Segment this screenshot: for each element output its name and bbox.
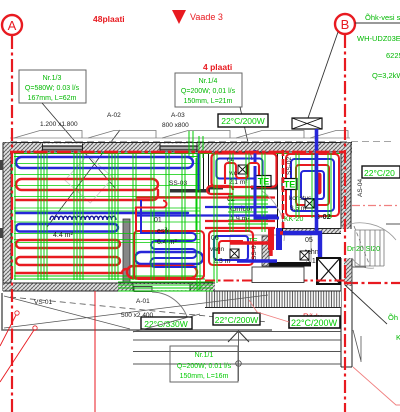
svg-text:2.3 m: 2.3 m xyxy=(213,258,231,265)
svg-text:800 x800: 800 x800 xyxy=(162,122,189,129)
heating spiral wc blue middle xyxy=(217,159,263,179)
line from circle B to right xyxy=(355,22,400,24)
door swing arc large xyxy=(341,223,396,240)
bottom exterior wall (hatched) xyxy=(3,283,215,291)
svg-text:A: A xyxy=(8,18,17,33)
heating pipe red run low xyxy=(16,269,126,273)
convector coil symbol xyxy=(50,216,116,220)
red dash-dot service line above balcony xyxy=(205,280,345,282)
svg-text:Q=3,2kW: Q=3,2kW xyxy=(372,71,400,80)
manifold blue bar xyxy=(276,228,282,250)
vent symbol tech room right xyxy=(300,251,309,260)
wall below room 03 xyxy=(283,229,341,234)
door A-01 leaf xyxy=(134,287,152,292)
exterior stair treads xyxy=(355,230,384,266)
door A-01 swing arc xyxy=(152,292,189,325)
leader from box Nr.1/3 xyxy=(42,103,115,188)
thermostat TE wc xyxy=(256,176,271,187)
heating loop red bottom right xyxy=(127,266,197,278)
right exterior wall (hatched) xyxy=(341,143,351,230)
leader from box Nr.1/4 to wc room xyxy=(240,107,252,160)
heating spiral wc red inner meander xyxy=(225,163,259,187)
red dashed service line right xyxy=(352,205,400,207)
manifold red stub right xyxy=(280,231,290,234)
balcony slab (vertical hatch) xyxy=(205,291,341,308)
roof slope wedge 2 xyxy=(88,131,156,139)
thermostat box 22C/200W bottom middle xyxy=(213,313,260,325)
svg-text:K: K xyxy=(396,333,400,342)
eave line above top wall xyxy=(10,137,350,139)
supply red to corridor left xyxy=(230,241,268,244)
heating loop blue bottom right xyxy=(135,252,203,264)
svg-text:A-01: A-01 xyxy=(136,298,150,305)
red leader bottom left 1 xyxy=(0,315,16,346)
interior wall strip left of manifold xyxy=(262,236,269,266)
svg-text:48plaati: 48plaati xyxy=(93,14,125,24)
svg-text:Vaade 3: Vaade 3 xyxy=(190,12,223,22)
red riser line bottom xyxy=(94,291,96,412)
section line A lower continuation xyxy=(11,330,13,412)
svg-text:05: 05 xyxy=(305,237,313,244)
door swing arc small xyxy=(352,258,374,268)
green supply lines crossing top wall xyxy=(189,131,203,158)
section marker B circle xyxy=(335,14,355,34)
roof slope wedge 4 xyxy=(236,131,304,139)
roof slope wedge 3 xyxy=(162,131,230,139)
right wall lower segment xyxy=(341,258,352,367)
heating spiral room03 red outer xyxy=(286,154,339,216)
svg-text:4.4 m²: 4.4 m² xyxy=(53,232,74,239)
heating spiral room03 blue 2 xyxy=(291,159,334,211)
heating loop living room red pair 1 xyxy=(16,179,158,190)
red dashed riser xyxy=(282,150,285,232)
heating loop living room red pair 2 xyxy=(16,240,120,248)
svg-text:150mm, L=21m: 150mm, L=21m xyxy=(184,98,233,105)
ramp diagonal 1 xyxy=(4,295,268,328)
green pipe band at bottom wall xyxy=(118,282,213,291)
section line B (red dash-dot vertical) xyxy=(344,35,346,412)
green header line along top of floor xyxy=(14,154,340,157)
vent symbol room03 xyxy=(305,199,314,208)
heating loop living room red pair 3 xyxy=(16,257,120,265)
roof slope wedge 1 xyxy=(14,131,82,139)
thermostat box 22C/200W bottom right xyxy=(289,316,340,328)
main supply blue riser from vent xyxy=(315,129,319,233)
manifold red bar xyxy=(268,228,274,250)
interior wall SS-03 stub xyxy=(170,189,210,193)
heating loop living room blue pair 1 xyxy=(16,157,193,168)
svg-text:AS-04: AS-04 xyxy=(357,179,364,197)
heating loop living room blue pair 2 xyxy=(16,224,118,232)
svg-text:Nr.1/3: Nr.1/3 xyxy=(43,75,62,82)
wall stub outside left 1 xyxy=(0,160,4,170)
svg-text:4 plaati: 4 plaati xyxy=(203,62,232,72)
svg-text:150mm, L=16m: 150mm, L=16m xyxy=(180,373,229,380)
svg-text:Nr.1/1: Nr.1/1 xyxy=(195,352,214,359)
red feed esik xyxy=(136,201,167,232)
corridor pipe red header 2 xyxy=(205,221,275,228)
manifold red elbow down xyxy=(269,250,272,256)
water tank outline tech room xyxy=(252,267,304,283)
outdoor unit (crossed box) xyxy=(317,258,340,284)
blue riser left of wc wall xyxy=(198,153,200,190)
heating pipe red run 3 xyxy=(16,190,158,200)
stair dashed walk line xyxy=(354,226,370,266)
tech room outline xyxy=(230,235,311,262)
door swing arc corridor xyxy=(262,191,284,241)
svg-text:6.4 m²: 6.4 m² xyxy=(157,239,178,246)
left exterior wall (hatched) xyxy=(3,143,11,292)
ramp VS-01 outline xyxy=(2,293,272,330)
red leader to Rodu box xyxy=(249,300,289,322)
red dash-dot pipe line along top wall xyxy=(10,151,344,154)
svg-text:A-02: A-02 xyxy=(107,112,121,119)
corridor red loop upper left xyxy=(207,186,233,194)
ramp diagonal 2 xyxy=(4,296,130,329)
wall brace bottom right xyxy=(353,330,361,362)
red marker circle 1 xyxy=(15,311,19,315)
roof vent unit (crossed rectangle) xyxy=(292,118,322,129)
window A-03 opening xyxy=(160,144,197,153)
green duct bundle in corridor xyxy=(228,196,268,224)
red marker circle 2 xyxy=(33,326,37,330)
interior wall left of wc xyxy=(203,152,209,189)
svg-text:6225: 6225 xyxy=(386,51,400,60)
heating pipe blue run mid xyxy=(16,212,188,214)
svg-text:KK-20: KK-20 xyxy=(284,216,304,223)
supply red drop room03 xyxy=(317,175,322,192)
wall stub outside left 2 xyxy=(0,228,4,238)
room 06 spiral blue xyxy=(214,236,248,260)
svg-text:Q=200W; 0,01 l/s: Q=200W; 0,01 l/s xyxy=(181,88,236,95)
stem circle xyxy=(236,361,242,367)
green riser pair left of wc xyxy=(196,158,200,232)
stairs up arrow chevron xyxy=(228,331,249,342)
heating spiral room03 blue 4 xyxy=(301,171,324,199)
svg-text:TE: TE xyxy=(258,177,270,187)
blue feed esik xyxy=(140,200,142,212)
svg-text:esik: esik xyxy=(157,228,170,235)
svg-text:06: 06 xyxy=(211,235,219,242)
thermostat box 22C/200W right xyxy=(362,166,400,178)
svg-text:Nr.1/4: Nr.1/4 xyxy=(199,78,218,85)
thermostat TE room03 xyxy=(282,179,297,190)
corridor pipe blue header 1 xyxy=(205,206,277,208)
vent symbol wc (crossed box) xyxy=(238,165,247,174)
ramp dashed diagonal xyxy=(10,297,268,322)
svg-text:2.1 m²: 2.1 m² xyxy=(229,179,248,186)
red dash-dot line bottom right horizontal xyxy=(345,282,400,284)
section marker A circle xyxy=(2,15,22,35)
interior wall between corridor and room 03 xyxy=(277,152,283,235)
view marker Vaade 3 triangle xyxy=(172,10,186,24)
green plate lines between pipe rows xyxy=(14,164,200,243)
main supply blue drop wc xyxy=(255,150,279,218)
green lines along bottom of living room xyxy=(14,276,205,279)
interior wall between living room and esik xyxy=(123,219,130,283)
svg-text:01: 01 xyxy=(154,217,162,224)
room 06 spiral red inner xyxy=(219,241,243,254)
main blue line manifold to outdoor unit xyxy=(283,233,320,260)
svg-text:1.200 x1.800: 1.200 x1.800 xyxy=(40,121,78,128)
info box Nr.1/4 xyxy=(175,73,242,107)
heating serpentine esik blue xyxy=(141,212,197,267)
svg-text:167mm, L=62m: 167mm, L=62m xyxy=(28,95,77,102)
roof slope wedge 5 xyxy=(310,131,348,139)
room 06 spiral red outer xyxy=(209,231,253,265)
svg-text:SS-02: SS-02 xyxy=(286,157,293,175)
svg-text:22°C/200W: 22°C/200W xyxy=(221,116,265,126)
heating spiral room03 red 3 xyxy=(296,165,329,205)
svg-text:TE: TE xyxy=(284,180,296,190)
window A-02 opening xyxy=(43,144,83,153)
heating spiral wc red outer xyxy=(212,154,277,188)
svg-text:22°C/200W: 22°C/200W xyxy=(291,318,338,328)
vent symbol room 06 xyxy=(230,249,239,258)
info box Nr.1/3 xyxy=(19,70,86,103)
furniture outline (faint) xyxy=(65,155,113,203)
svg-text:Q=580W; 0.03 l/s: Q=580W; 0.03 l/s xyxy=(25,85,80,92)
svg-text:3.5 m: 3.5 m xyxy=(290,205,306,212)
svg-text:Q=200W; 0.01 l/s: Q=200W; 0.01 l/s xyxy=(177,363,232,370)
section line A (red dash-dot vertical) xyxy=(11,36,13,330)
interior wall below wc left xyxy=(209,186,223,190)
svg-text:WH-UDZ03E5: WH-UDZ03E5 xyxy=(357,34,400,43)
arrow stem xyxy=(238,331,240,381)
platform edge right xyxy=(352,224,400,285)
info box Nr.1/1 xyxy=(170,346,238,382)
leader line through room A-02 xyxy=(47,130,120,227)
top exterior wall (hatched) xyxy=(3,143,352,153)
svg-text:Õh: Õh xyxy=(388,313,398,322)
eave dashed line xyxy=(10,141,392,143)
red leader bottom right xyxy=(353,367,400,405)
tech room bottom wall xyxy=(269,262,311,267)
svg-text:VS-01: VS-01 xyxy=(34,299,52,306)
leader from circle B to roof vent xyxy=(308,32,338,118)
corridor pipe blue header 2 xyxy=(136,214,277,216)
svg-text:22°C/200W: 22°C/200W xyxy=(215,315,259,325)
red leader bottom left 2 xyxy=(0,330,34,382)
interior wall below wc right xyxy=(251,186,277,190)
svg-text:22°C/20: 22°C/20 xyxy=(364,168,395,178)
thermostat box 22C/330W (crossed) xyxy=(133,314,200,332)
svg-text:Õhk-vesi sooj: Õhk-vesi sooj xyxy=(365,13,400,22)
heating loop esik red perimeter xyxy=(134,231,204,279)
door A-01 opening xyxy=(133,284,190,291)
svg-text:B: B xyxy=(341,17,350,32)
corridor pipe red header 1 xyxy=(136,196,275,198)
leader outdoor unit to label xyxy=(345,285,387,324)
supply blue to left rooms xyxy=(237,259,277,262)
terrace deck lines xyxy=(133,332,341,365)
thermostat box 22C/200W top xyxy=(218,114,268,127)
floor plate grid (green verticals) xyxy=(12,153,331,291)
svg-text:A-03: A-03 xyxy=(171,112,185,119)
